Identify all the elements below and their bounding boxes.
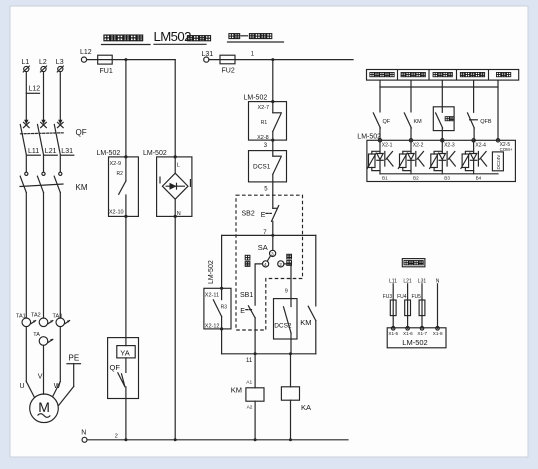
node 11 bus: [222, 352, 316, 364]
selector SA: [245, 235, 291, 268]
coil KA: [281, 354, 311, 440]
ground PE: [59, 354, 81, 406]
terminal L2: [39, 59, 47, 72]
junction node: [124, 58, 127, 61]
svg-text:DCS1: DCS1: [253, 164, 271, 171]
svg-text:YA: YA: [120, 348, 129, 357]
svg-text:B1: B1: [382, 176, 388, 181]
svg-text:N: N: [177, 211, 181, 217]
svg-text:X2-3: X2-3: [444, 143, 455, 149]
internal common bus: [380, 173, 498, 175]
dashed enclosure local control station: [236, 195, 303, 330]
wire label L31: [61, 148, 74, 155]
svg-text:X2-7: X2-7: [258, 105, 270, 111]
svg-text:LM-502: LM-502: [244, 94, 268, 101]
wire phase L1: [25, 72, 27, 121]
svg-text:LM-502: LM-502: [97, 150, 121, 157]
svg-text:L31: L31: [61, 148, 73, 155]
terminal L31: [202, 51, 214, 62]
wire from SA-2: [284, 264, 291, 299]
terminal block LM-502: [387, 327, 446, 348]
wire: [272, 182, 274, 208]
svg-text:LM502: LM502: [154, 29, 192, 44]
svg-text:2: 2: [115, 433, 118, 439]
wire L31: [418, 279, 427, 329]
svg-text:R2: R2: [117, 171, 124, 177]
CT TA3: [53, 314, 70, 327]
wire to motor V: [38, 345, 44, 394]
svg-text:KM: KM: [76, 183, 88, 192]
status table header: [367, 70, 519, 81]
svg-text:FU4: FU4: [397, 294, 407, 300]
svg-text:X2-9: X2-9: [110, 161, 122, 167]
neutral bus N: [81, 430, 348, 443]
svg-text:L12: L12: [29, 85, 41, 92]
title LM502辅助电源: [154, 29, 211, 44]
terminal L1: [22, 59, 30, 72]
svg-text:FU1: FU1: [100, 68, 113, 75]
svg-text:L: L: [177, 163, 180, 169]
svg-text:4: 4: [264, 262, 267, 268]
wire to motor W: [53, 327, 61, 397]
svg-text:L2: L2: [39, 59, 47, 66]
fuse FU1: [87, 55, 176, 75]
DC24V supply: [492, 152, 503, 171]
svg-text:FU3: FU3: [383, 294, 393, 300]
wire: [26, 155, 60, 172]
svg-text:QFB: QFB: [480, 119, 492, 125]
contact KM aux self-hold: [300, 235, 316, 353]
optocoupler B3: [429, 140, 455, 180]
svg-text:TA: TA: [33, 332, 40, 338]
wire: [272, 140, 274, 151]
svg-text:PE: PE: [69, 354, 80, 363]
CT TA2: [31, 313, 53, 327]
coil KM: [231, 354, 264, 440]
svg-text:A1: A1: [246, 380, 252, 386]
svg-text:SA: SA: [258, 243, 268, 252]
LM-502 input module box: [357, 133, 515, 181]
CT TA: [33, 332, 53, 345]
svg-text:X2-12: X2-12: [205, 323, 220, 329]
svg-text:QF: QF: [76, 128, 87, 137]
svg-text:E: E: [261, 212, 266, 219]
svg-text:LM-502: LM-502: [357, 133, 381, 140]
terminal L12: [80, 49, 92, 62]
optocoupler B1: [367, 140, 393, 180]
svg-text:L1: L1: [22, 59, 30, 66]
motor M: [30, 394, 59, 423]
svg-text:R3: R3: [221, 304, 228, 310]
spare contact 备用: [433, 107, 454, 141]
relay contact R3 LM-502: [204, 235, 231, 353]
svg-text:SB1: SB1: [240, 292, 253, 299]
fuse FU5: [412, 294, 425, 316]
svg-text:B2: B2: [413, 176, 419, 181]
svg-text:U: U: [20, 383, 25, 390]
svg-text:KA: KA: [301, 403, 311, 412]
svg-text:X1-6: X1-6: [403, 331, 413, 336]
svg-text:X2-8: X2-8: [257, 135, 269, 141]
svg-text:X2-1: X2-1: [382, 143, 393, 149]
svg-text:X2-4: X2-4: [475, 143, 486, 149]
wire: [174, 60, 176, 157]
wire bus to contacts: [380, 80, 498, 140]
svg-text:FU2: FU2: [222, 68, 235, 75]
junction node: [271, 58, 274, 61]
svg-text:L21: L21: [45, 148, 57, 155]
fuse FU3: [383, 294, 396, 316]
svg-text:M: M: [38, 399, 50, 415]
trip unit YA / QF: [108, 216, 139, 439]
wire: [26, 193, 60, 319]
wire phase L2: [43, 72, 45, 121]
svg-text:11: 11: [246, 358, 253, 364]
svg-text:L11: L11: [28, 148, 39, 155]
wire from SA-4: [255, 264, 262, 305]
svg-text:COM+: COM+: [500, 147, 513, 152]
contact QFB: [468, 113, 492, 140]
contact QF status: [373, 113, 390, 140]
wire phase L3: [59, 72, 61, 121]
svg-text:X1-7: X1-7: [417, 331, 427, 336]
wire to motor U: [20, 327, 35, 398]
svg-text:2: 2: [279, 262, 282, 268]
title 单相断电保护: [102, 35, 151, 44]
wire L21: [403, 279, 412, 329]
rectifier LM-502: [143, 150, 192, 440]
svg-text:W: W: [54, 383, 61, 390]
optocoupler B2: [398, 140, 424, 180]
terminal L3: [56, 59, 64, 72]
svg-text:A2: A2: [247, 404, 253, 410]
svg-text:KM: KM: [231, 386, 242, 395]
contactor KM main contacts: [20, 172, 88, 192]
svg-text:L3: L3: [56, 59, 64, 66]
wire N: [436, 279, 440, 329]
svg-text:TA2: TA2: [31, 313, 41, 319]
svg-text:KM: KM: [414, 119, 423, 125]
pushbutton SB1: [240, 292, 255, 354]
svg-text:LM-502: LM-502: [208, 260, 215, 284]
svg-text:QF: QF: [110, 363, 121, 372]
svg-text:9: 9: [285, 288, 288, 294]
svg-text:L12: L12: [80, 49, 92, 56]
pushbutton SB2: [242, 206, 279, 236]
svg-text:QF: QF: [383, 119, 391, 125]
svg-text:X2-2: X2-2: [413, 143, 424, 149]
svg-text:B3: B3: [444, 176, 450, 181]
svg-text:KM: KM: [300, 318, 311, 327]
svg-text:R1: R1: [261, 120, 268, 126]
fuse FU4: [397, 294, 410, 316]
contact R1 LM-502 X2-7: [244, 94, 287, 141]
contact DCS1: [249, 151, 287, 182]
svg-text:X1-5: X1-5: [388, 331, 398, 336]
svg-text:DC24V: DC24V: [496, 154, 501, 170]
svg-text:N: N: [81, 430, 86, 437]
svg-text:X2-11: X2-11: [205, 292, 219, 298]
svg-text:X2-10: X2-10: [109, 209, 124, 215]
contact KM status: [404, 113, 422, 140]
svg-text:3: 3: [271, 252, 274, 258]
svg-text:LM-502: LM-502: [402, 338, 427, 347]
svg-text:E: E: [240, 308, 245, 315]
svg-text:X1-8: X1-8: [433, 331, 443, 336]
optocoupler B4: [461, 140, 487, 180]
title 起动—停车回路: [228, 34, 284, 42]
wire label L11: [27, 148, 40, 155]
svg-text:SB2: SB2: [242, 211, 255, 218]
wire label L21: [44, 148, 57, 155]
CT TA1: [16, 314, 36, 327]
breaker QF: [20, 120, 86, 155]
svg-text:FU5: FU5: [412, 294, 422, 300]
contact DCS2: [274, 299, 298, 354]
wire: [272, 60, 274, 102]
node L12 tap: [26, 85, 40, 93]
node 7 bus: [222, 230, 316, 237]
svg-text:B4: B4: [476, 176, 482, 181]
relay contact R2 LM-502: [97, 150, 139, 218]
svg-text:LM-502: LM-502: [143, 150, 167, 157]
svg-text:V: V: [38, 374, 43, 381]
wire: [125, 60, 127, 157]
fuse FU2: [209, 55, 353, 74]
wire L11: [389, 279, 397, 329]
label 电源回路: [402, 259, 425, 267]
